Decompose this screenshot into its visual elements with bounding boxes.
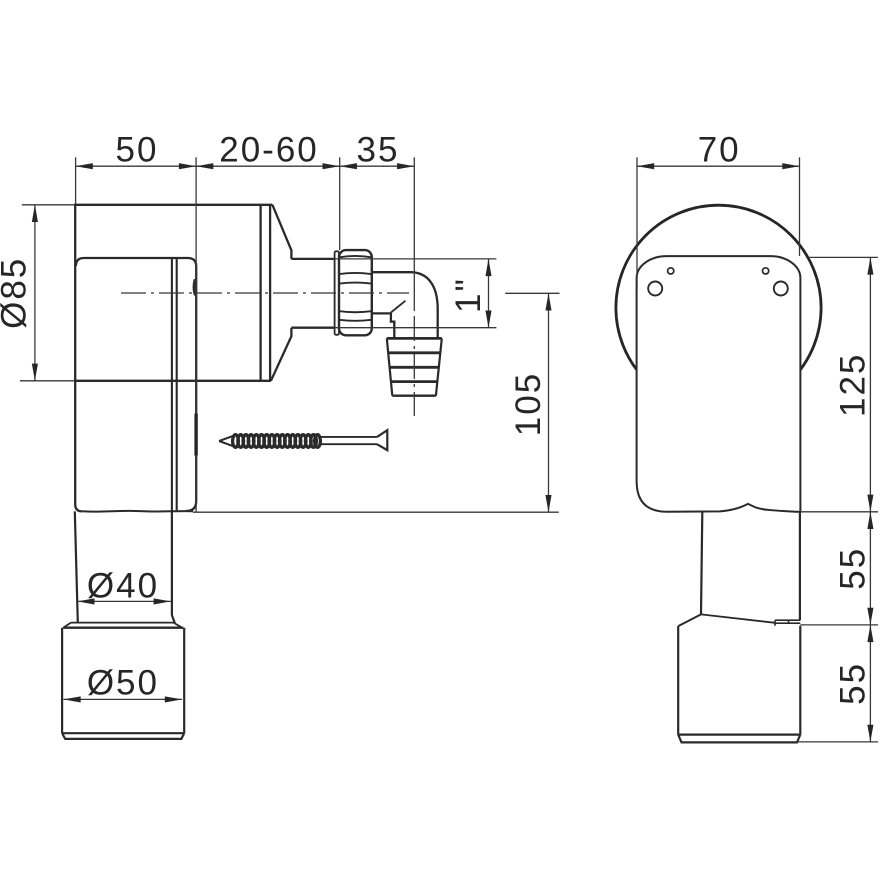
ext line for diam85 bottom bbox=[20, 380, 74, 382]
socket right edge bbox=[183, 628, 185, 734]
elbow inner profile bbox=[372, 313, 395, 338]
arrow 20-60 left bbox=[196, 163, 213, 169]
neck bottom edge bbox=[291, 327, 335, 329]
ext line 70 right bbox=[799, 157, 801, 256]
elbow vertical centerline bbox=[413, 308, 415, 416]
arrow 50 left bbox=[76, 163, 93, 169]
barb rib divider 1 bbox=[388, 351, 440, 354]
arrow 55b bottom bbox=[867, 725, 873, 742]
barb right slant bbox=[436, 338, 442, 395]
right socket left edge bbox=[677, 626, 679, 735]
arrow 105 top bbox=[545, 293, 551, 310]
arrow diam85 top bbox=[32, 205, 38, 222]
right view pipe left edge bbox=[701, 513, 702, 615]
arrow 1 inch top bbox=[485, 259, 491, 276]
escutcheon circle bbox=[616, 205, 821, 410]
nut washer bbox=[335, 251, 339, 334]
ext line 35 right bbox=[413, 157, 415, 308]
arrow 55a bottom bbox=[867, 608, 873, 625]
screw shank bbox=[320, 437, 377, 444]
arrow 105 bottom bbox=[545, 495, 551, 512]
right socket bottom edge bbox=[678, 735, 800, 743]
housing bottom break line (wavy) bbox=[82, 510, 193, 513]
arrow 55a top bbox=[867, 512, 873, 529]
horizontal centerline bbox=[121, 292, 409, 294]
housing inner rounded rectangle bbox=[76, 258, 196, 511]
1 inch ext bottom bbox=[335, 327, 496, 329]
body top edge bbox=[74, 204, 272, 206]
arrow 125 bottom bbox=[867, 495, 873, 512]
diam50 dimension line bbox=[64, 698, 183, 700]
arrow 35 right bbox=[397, 163, 414, 169]
svg-text:35: 35 bbox=[357, 130, 400, 169]
svg-text:70: 70 bbox=[698, 130, 741, 169]
nut body bbox=[339, 250, 372, 335]
elbow outer profile bbox=[372, 272, 438, 338]
wall anchoring thick mark bbox=[194, 414, 197, 456]
socket top-right chamfer bbox=[174, 623, 184, 629]
cover plate (white fill hides circle) bbox=[637, 256, 801, 512]
arrow 50 right bbox=[179, 163, 196, 169]
diam40 dimension line bbox=[77, 600, 171, 602]
plate small hole right bbox=[763, 268, 769, 274]
barb rib divider 2 bbox=[390, 366, 439, 369]
arrow diam50 right bbox=[165, 696, 182, 702]
svg-text:125: 125 bbox=[834, 353, 873, 417]
ext line 70 left bbox=[636, 157, 638, 290]
right view pipe right edge bbox=[799, 513, 801, 621]
svg-text:Ø85: Ø85 bbox=[0, 257, 34, 329]
outlet pipe left edge bbox=[75, 511, 78, 622]
arrow 70 right bbox=[782, 163, 799, 169]
socket left edge bbox=[61, 628, 63, 734]
internal pipe double line right bbox=[176, 258, 178, 511]
plate screw hole right bbox=[774, 282, 788, 296]
svg-text:55: 55 bbox=[834, 547, 873, 590]
arrow 1 inch bottom bbox=[485, 311, 491, 328]
70 dimension line bbox=[637, 165, 800, 167]
flange plate line left bbox=[259, 205, 261, 381]
arrow 20-60 right bbox=[323, 163, 340, 169]
ext line wall bbox=[195, 157, 197, 511]
arrow diam40 left bbox=[77, 598, 94, 604]
neck top edge bbox=[291, 258, 335, 260]
right socket right edge bbox=[799, 626, 801, 735]
elbow miter line bbox=[391, 301, 406, 313]
svg-text:105: 105 bbox=[509, 372, 548, 436]
105 ext top bbox=[505, 292, 559, 294]
arrow 55b top bbox=[867, 625, 873, 642]
housing left edge with rounded bottom corner bbox=[75, 205, 82, 512]
nut band 3 bbox=[339, 283, 371, 284]
ext line 20-60 / 35 bbox=[339, 157, 341, 250]
arrow 35 left bbox=[340, 163, 357, 169]
ext line 125 top bbox=[806, 256, 878, 258]
svg-text:Ø40: Ø40 bbox=[87, 566, 159, 605]
ext line 55 mid bbox=[800, 624, 878, 626]
svg-text:Ø50: Ø50 bbox=[87, 663, 159, 702]
svg-text:20-60: 20-60 bbox=[219, 130, 319, 169]
nut band 4 bbox=[339, 311, 371, 312]
nut band 5 bbox=[339, 320, 371, 321]
1 inch dimension line bbox=[488, 259, 490, 328]
svg-text:1": 1" bbox=[449, 277, 488, 313]
barb top edge bbox=[387, 337, 442, 340]
socket bottom line bbox=[62, 732, 184, 734]
right socket bottom line bbox=[678, 733, 800, 735]
1 inch ext top bbox=[335, 258, 496, 260]
socket seal notch bbox=[775, 620, 800, 626]
screw tip cone bbox=[219, 436, 233, 447]
barb rib divider 3 bbox=[391, 380, 438, 383]
internal pipe double line left bbox=[171, 258, 173, 511]
105 ext bottom bbox=[193, 511, 559, 513]
cone lower slant bbox=[271, 328, 292, 381]
cone upper slant bbox=[272, 205, 291, 259]
socket opening slant bbox=[701, 614, 775, 622]
ext line 55 bottom bbox=[797, 741, 878, 743]
body bottom edge (cylinder bottom) bbox=[74, 380, 271, 382]
socket top inner lip bbox=[71, 622, 174, 624]
105 dimension line bbox=[548, 293, 550, 512]
nut band 1 bbox=[339, 256, 371, 257]
svg-text:50: 50 bbox=[116, 130, 159, 169]
ext line 125 bottom bbox=[800, 511, 878, 513]
arrow 70 left bbox=[637, 163, 654, 169]
barb bottom edge bbox=[392, 395, 436, 397]
ext line for diam85 top bbox=[22, 204, 74, 206]
flange plate line right bbox=[269, 205, 271, 381]
svg-text:55: 55 bbox=[834, 662, 873, 705]
socket top edge bbox=[63, 627, 183, 629]
right dimension line bbox=[869, 257, 871, 742]
top dimension line bbox=[76, 165, 415, 167]
socket bottom edge bbox=[62, 733, 184, 739]
pipe joint crescent detail bbox=[194, 279, 195, 295]
nut band 2 bbox=[339, 273, 371, 274]
arrow diam40 right bbox=[154, 598, 171, 604]
arrow 125 top bbox=[867, 257, 873, 274]
screw thread rings bbox=[233, 435, 321, 448]
socket top-left chamfer bbox=[63, 623, 71, 628]
arrow diam50 left bbox=[64, 696, 81, 702]
pipe to socket chamfer left bbox=[678, 614, 701, 626]
ext line 50 left bbox=[75, 157, 77, 204]
arrow diam85 bottom bbox=[32, 364, 38, 381]
screw countersunk head bbox=[377, 430, 387, 450]
diam85 dimension line bbox=[34, 205, 36, 381]
barb left slant bbox=[387, 338, 393, 395]
outlet pipe right edge bbox=[172, 511, 175, 624]
plate small hole left bbox=[668, 268, 674, 274]
plate screw hole left bbox=[648, 282, 662, 296]
